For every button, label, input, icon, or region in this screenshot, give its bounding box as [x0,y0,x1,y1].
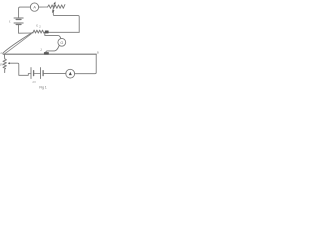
svg-text:2V: 2V [32,80,36,84]
svg-text:A: A [0,51,2,55]
svg-text:2: 2 [39,24,41,28]
svg-text:A: A [33,6,36,10]
svg-text:Fig 1: Fig 1 [39,86,46,90]
svg-text:ε: ε [36,24,38,28]
svg-text:ε: ε [9,19,11,23]
svg-text:G: G [60,41,63,45]
svg-text:J: J [40,48,42,52]
svg-text:B: B [97,51,99,55]
svg-text:R: R [0,63,3,67]
